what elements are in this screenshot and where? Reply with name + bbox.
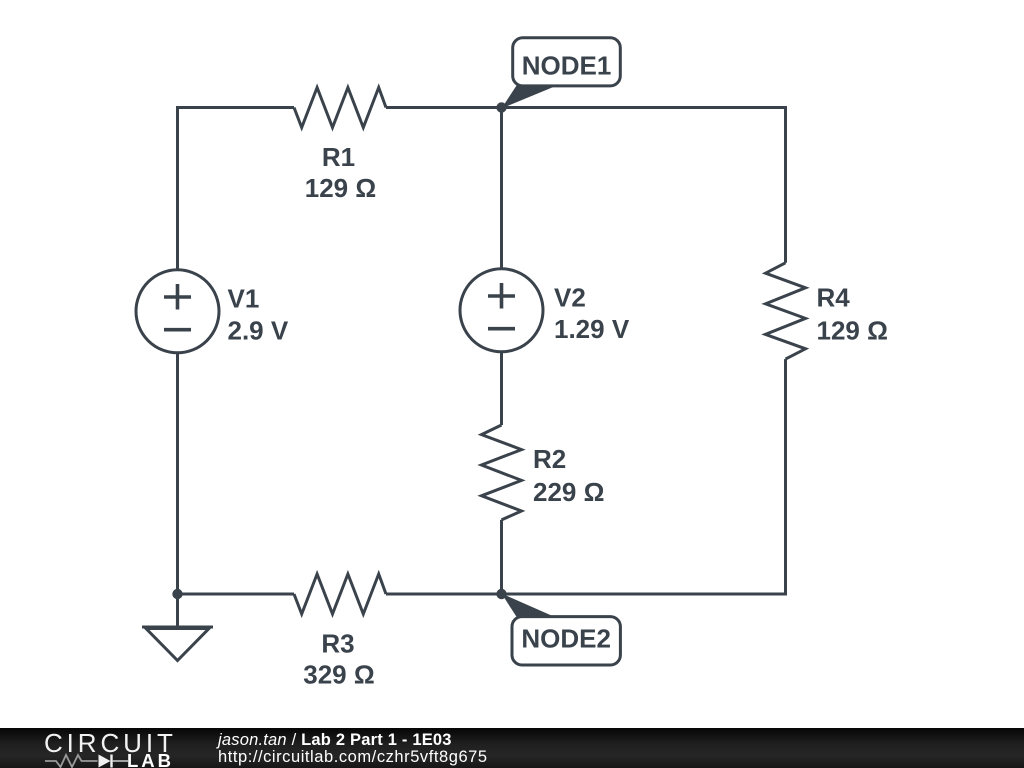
label R3 value bbox=[303, 629, 374, 690]
node NODE2 junction dot bbox=[496, 589, 506, 599]
svg-text:LAB: LAB bbox=[127, 750, 174, 768]
svg-text:V2: V2 bbox=[554, 283, 586, 313]
resistor R2 zigzag bbox=[482, 425, 522, 520]
svg-text:jason.tan / Lab 2 Part 1 - 1E0: jason.tan / Lab 2 Part 1 - 1E03 bbox=[216, 731, 452, 749]
wire middle rail top (NODE1 to V2) bbox=[500, 108, 503, 269]
svg-text:229 Ω: 229 Ω bbox=[533, 477, 604, 507]
wire middle rail bottom (R2 to NODE2) bbox=[500, 520, 503, 594]
wire right rail lower + bottom-right run bbox=[502, 359, 786, 594]
node ground junction dot bbox=[172, 589, 182, 599]
svg-text:R4: R4 bbox=[817, 283, 851, 313]
svg-text:NODE2: NODE2 bbox=[521, 623, 611, 653]
ground bbox=[142, 594, 213, 661]
svg-text:R3: R3 bbox=[321, 629, 354, 659]
resistor R3 zigzag bbox=[294, 574, 386, 614]
wire top-left (left rail upper + top run to R1) bbox=[178, 108, 295, 270]
resistor R4 zigzag bbox=[766, 263, 806, 359]
svg-text:V1: V1 bbox=[228, 284, 260, 314]
footer bar bbox=[0, 728, 1024, 768]
wire middle rail mid (V2 to R2) bbox=[500, 352, 503, 425]
label V1 value bbox=[228, 284, 289, 346]
svg-text:329 Ω: 329 Ω bbox=[303, 659, 374, 689]
voltage source V2 bbox=[460, 269, 543, 352]
wire top-right run + right rail upper bbox=[386, 108, 786, 263]
svg-text:1.29 V: 1.29 V bbox=[554, 314, 630, 344]
label R1 value bbox=[305, 142, 376, 203]
svg-text:129 Ω: 129 Ω bbox=[817, 315, 888, 345]
node NODE2 callout bbox=[502, 594, 621, 666]
wire bottom-left run bbox=[178, 593, 295, 596]
wire bottom middle run (NODE2 to R3) bbox=[386, 593, 502, 596]
node NODE1 callout bbox=[502, 38, 621, 109]
svg-text:129 Ω: 129 Ω bbox=[305, 173, 376, 203]
label R4 value bbox=[817, 283, 888, 346]
resistor R1 zigzag bbox=[294, 88, 386, 128]
node NODE1 junction dot bbox=[496, 102, 506, 112]
svg-text:http://circuitlab.com/czhr5vft: http://circuitlab.com/czhr5vft8g675 bbox=[218, 748, 488, 766]
label R2 value bbox=[533, 444, 604, 507]
svg-text:R2: R2 bbox=[533, 444, 566, 474]
voltage source V1 bbox=[136, 270, 219, 353]
svg-text:2.9 V: 2.9 V bbox=[228, 316, 289, 346]
logo resistor-diode glyph bbox=[45, 755, 128, 768]
svg-text:R1: R1 bbox=[322, 142, 355, 172]
label V2 value bbox=[554, 283, 630, 344]
svg-text:NODE1: NODE1 bbox=[522, 50, 612, 80]
wire left rail lower (V1 to bottom) bbox=[176, 353, 179, 594]
